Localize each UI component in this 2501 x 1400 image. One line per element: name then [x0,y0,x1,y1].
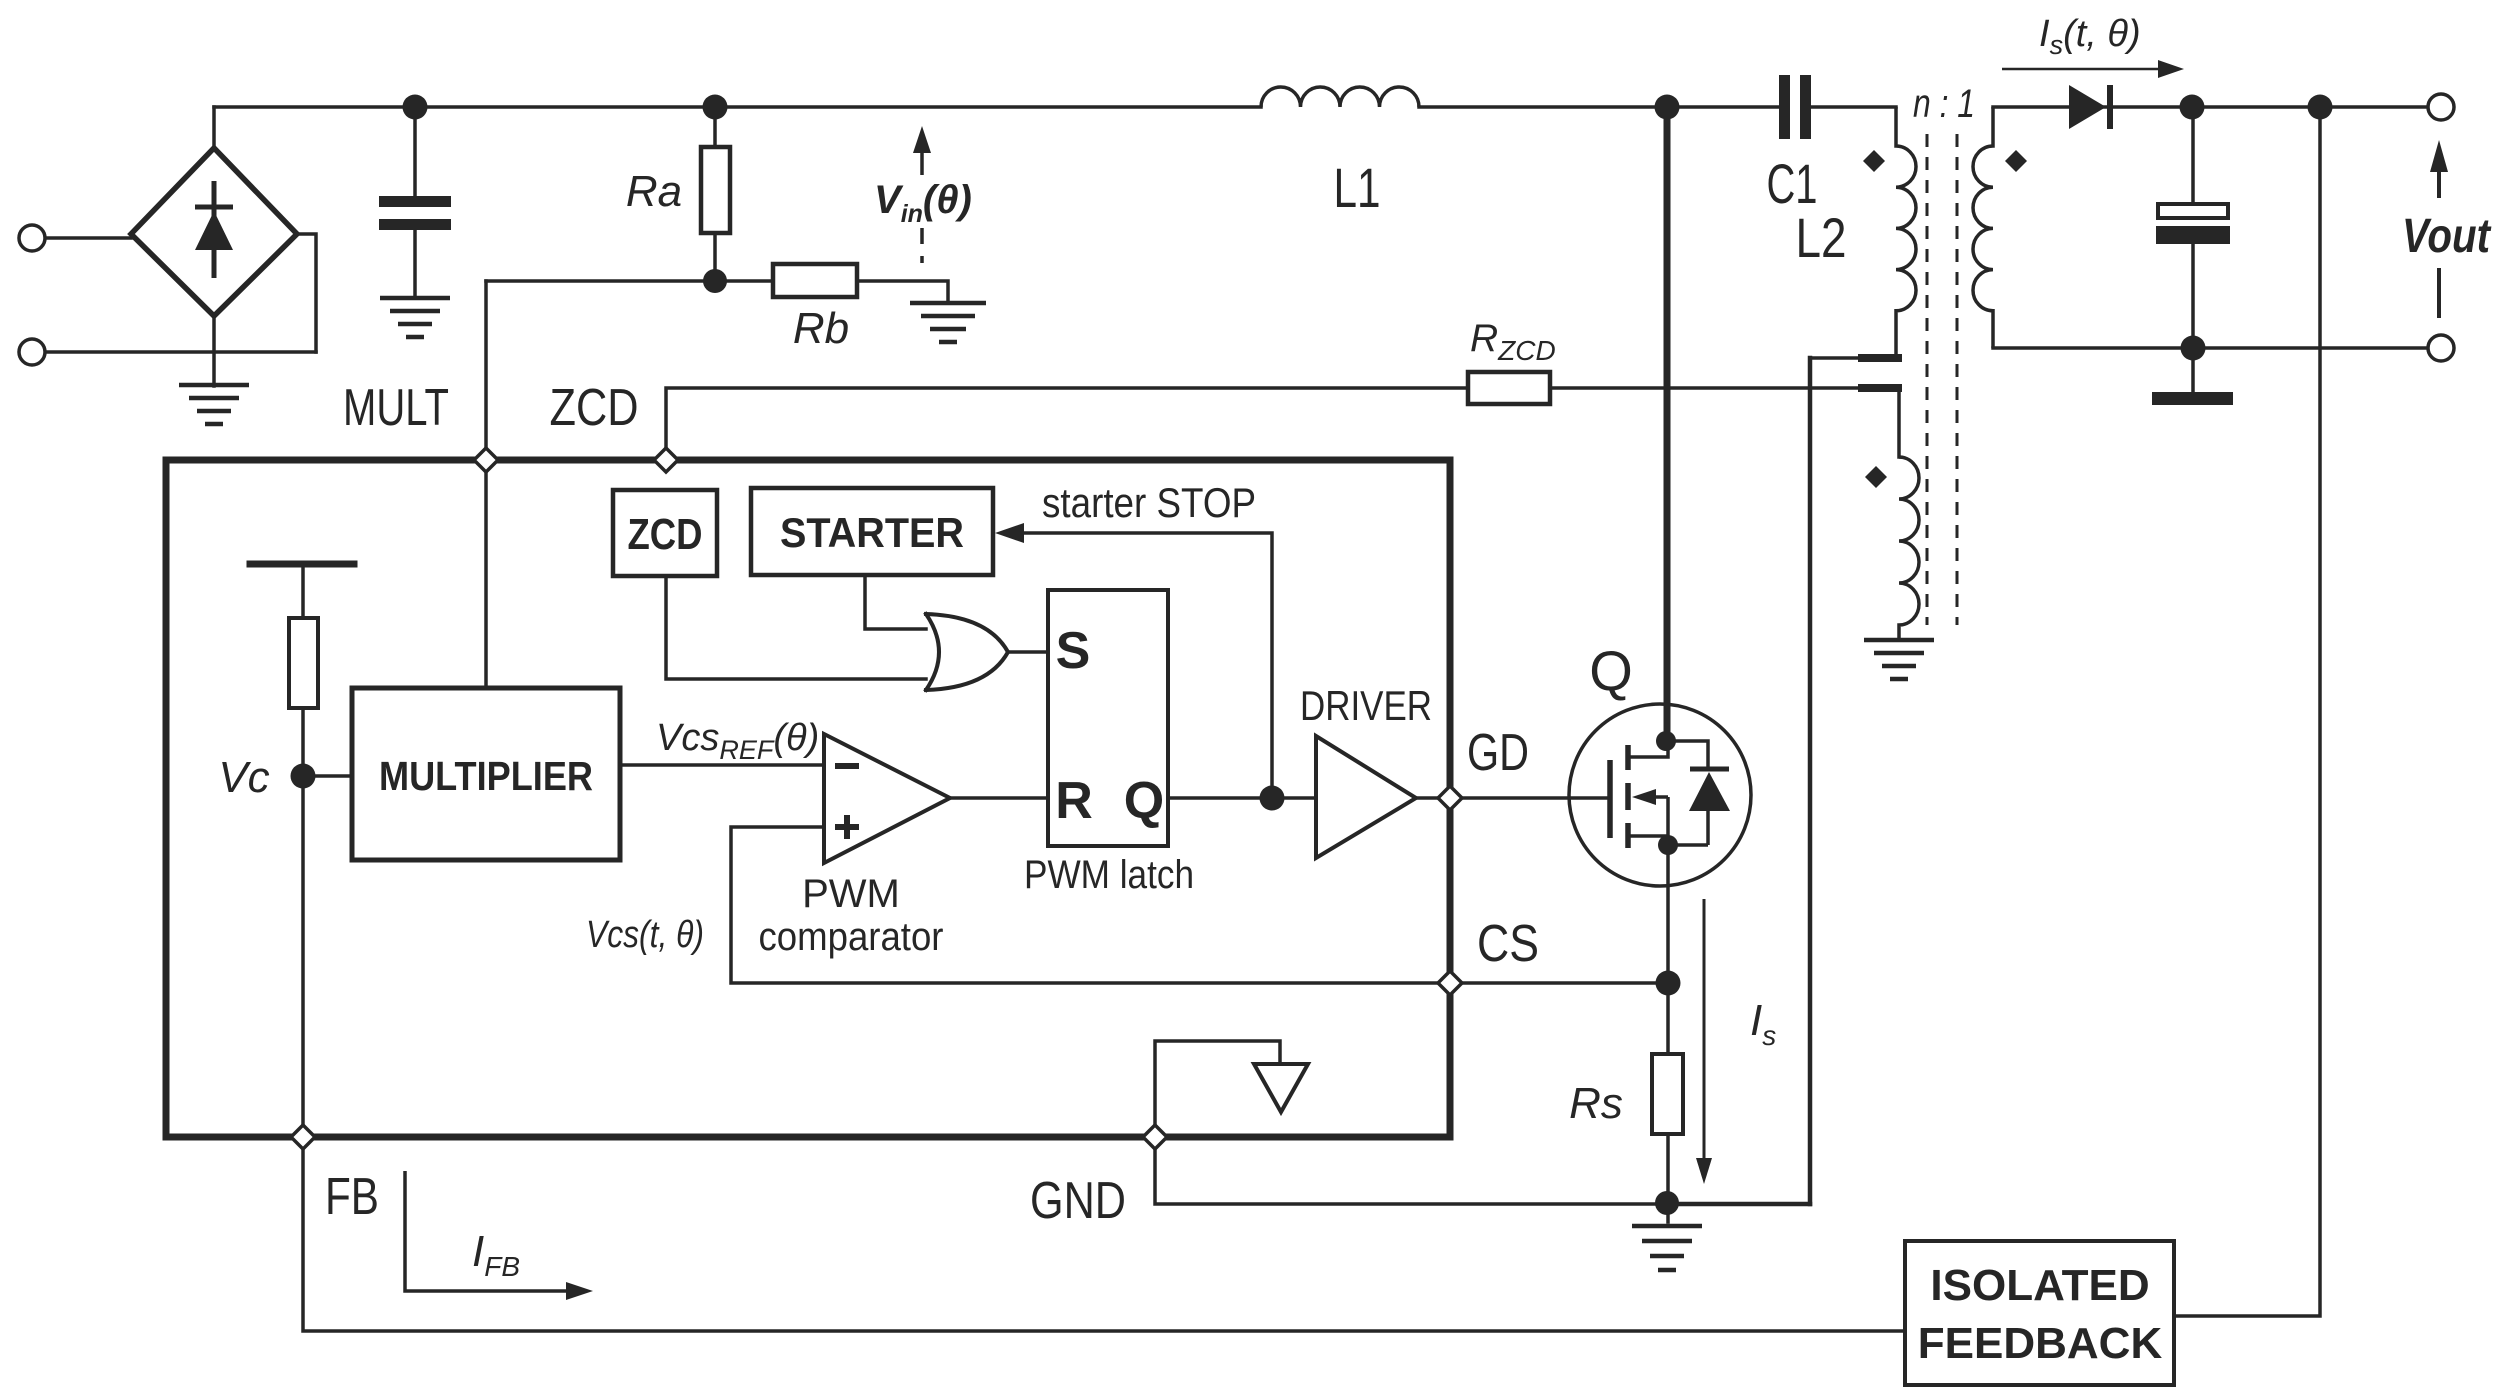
svg-text:GND: GND [1030,1172,1126,1230]
svg-text:L2: L2 [1796,206,1847,269]
svg-text:MULTIPLIER: MULTIPLIER [379,753,593,799]
svg-text:L1: L1 [1334,156,1381,219]
svg-text:Rs: Rs [1569,1079,1623,1128]
svg-text:comparator: comparator [759,915,944,959]
svg-text:Vout: Vout [2402,210,2492,263]
svg-text:Ra: Ra [626,167,682,216]
svg-text:GD: GD [1467,724,1529,782]
svg-text:ZCD: ZCD [628,510,703,559]
svg-text:starter STOP: starter STOP [1042,479,1256,526]
svg-text:ZCD: ZCD [550,379,639,437]
svg-text:Q: Q [1589,639,1633,702]
svg-text:ISOLATED: ISOLATED [1930,1261,2149,1310]
svg-text:MULT: MULT [343,379,449,437]
svg-text:Vcs(t, θ): Vcs(t, θ) [586,914,704,956]
svg-text:Vin(θ): Vin(θ) [874,178,972,228]
svg-text:PWM: PWM [802,872,900,916]
svg-text:Vc: Vc [218,753,269,802]
svg-text:PWM latch: PWM latch [1024,853,1194,897]
svg-text:Q: Q [1124,772,1164,830]
svg-text:n : 1: n : 1 [1913,82,1975,126]
svg-text:STARTER: STARTER [780,509,964,556]
svg-text:FB: FB [325,1168,379,1226]
svg-text:FEEDBACK: FEEDBACK [1918,1319,2163,1368]
svg-text:R: R [1055,772,1093,830]
svg-text:DRIVER: DRIVER [1300,682,1432,729]
svg-text:S: S [1056,622,1091,680]
svg-text:Rb: Rb [793,304,849,353]
svg-text:CS: CS [1477,915,1539,973]
